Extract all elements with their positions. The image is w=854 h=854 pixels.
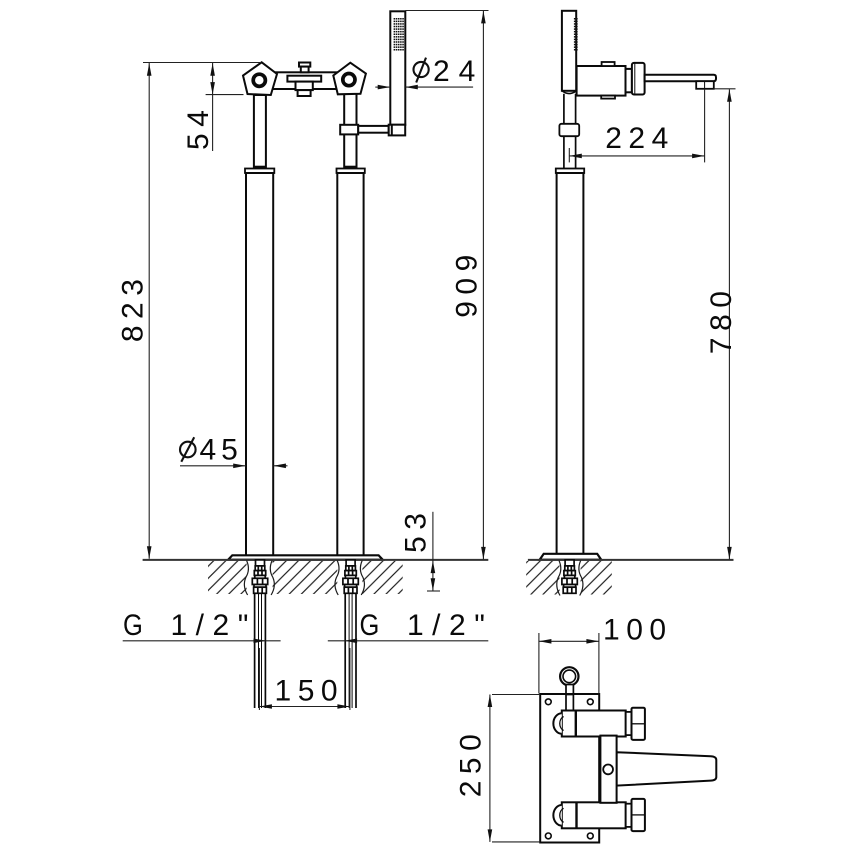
ext 250 bottom (492, 841, 540, 843)
svg-text:1/2": 1/2" (171, 609, 257, 642)
svg-text:250: 250 (455, 728, 488, 798)
screw hole tr (587, 699, 593, 705)
handle pentagon left (243, 62, 277, 95)
wavy break line left of side tail (557, 561, 561, 596)
floor line front (143, 559, 489, 561)
spout base circle (603, 765, 613, 775)
valve cap arc top (553, 713, 561, 734)
dim phi24 line left (375, 86, 390, 88)
dim 250 line (489, 695, 491, 842)
ext 100 right (598, 633, 600, 694)
hatch patch front 1 (208, 561, 247, 594)
arrow 54 bottom (210, 82, 215, 95)
pipe joint line right (344, 166, 356, 169)
svg-text:150: 150 (275, 675, 345, 708)
holder stem over plate (566, 695, 573, 711)
hose side left line (563, 94, 565, 169)
spout bar side (645, 75, 716, 81)
dim phi45 leader right (273, 465, 287, 467)
pipe joint line left (254, 166, 266, 169)
ext 780 top (714, 88, 736, 90)
holder stem (566, 685, 573, 712)
holder ring inner (563, 670, 576, 683)
arrow 150 right (337, 704, 350, 709)
svg-text:53: 53 (400, 507, 433, 553)
leader G12 left (123, 640, 281, 642)
valve cap inner arc top (560, 717, 564, 731)
dim 150 line (259, 706, 350, 708)
base plate side (540, 554, 602, 560)
riser pipe left (254, 95, 266, 169)
elbow horizontal pipe (358, 126, 389, 133)
arrow 909 top (481, 11, 486, 24)
column collar side (556, 169, 584, 174)
ext line 53 bottom (427, 590, 440, 592)
screw hole bl (545, 833, 551, 839)
dim 909 line (482, 11, 484, 560)
column right (337, 173, 363, 556)
dim 224 line (569, 155, 704, 157)
arrow 100 right (586, 639, 599, 644)
hatch patch side 2 (581, 561, 612, 595)
ext 224 right vertical (704, 89, 706, 163)
handle side (632, 63, 645, 95)
hand shower side body (562, 11, 576, 91)
dim 100 line (539, 640, 599, 642)
ext 100 left (538, 633, 540, 694)
elbow collar on right riser (340, 125, 358, 135)
threaded tail side (562, 560, 577, 593)
arrow 823 bottom (147, 546, 152, 559)
handle ring left (253, 74, 265, 86)
handle pentagon right (333, 63, 366, 95)
label phi45 symbol (180, 437, 196, 462)
spout outlet inner line (704, 81, 706, 89)
arrow 53 top (431, 561, 436, 574)
svg-text:24: 24 (433, 55, 484, 88)
svg-text:G: G (123, 608, 143, 641)
ext 150 left (258, 648, 260, 710)
valve collar top (626, 712, 632, 735)
arrow phi45 r (273, 464, 286, 469)
valve divider bottom (575, 802, 577, 828)
arrow G12 left (254, 639, 267, 644)
column side (557, 173, 584, 554)
arrow 100 left (539, 639, 552, 644)
hose fitting inner line (391, 125, 393, 136)
spout outlet side (696, 81, 714, 89)
valve handle mid line top (632, 723, 645, 725)
riser pipe right (344, 94, 356, 169)
ext line 54 bottom (206, 94, 244, 96)
hatch patch front 2 (273, 561, 338, 594)
holder ring outer (560, 667, 578, 685)
spray dots side shower (574, 18, 578, 51)
wavy break line left of right tail (335, 561, 339, 596)
dim 780 line (728, 89, 730, 559)
ext 150 right (349, 648, 351, 710)
valve handle top (632, 708, 645, 740)
handle collar side (626, 69, 632, 92)
valve collar bottom (626, 804, 632, 827)
svg-text:G: G (360, 608, 380, 641)
column left (246, 173, 273, 556)
svg-text:823: 823 (117, 273, 150, 343)
svg-text:224: 224 (605, 122, 675, 155)
base plate front (228, 555, 383, 559)
arrow phi24 right (405, 85, 418, 90)
arrow 823 top (147, 63, 152, 75)
arrow 150 left (259, 704, 272, 709)
mounting plate (540, 694, 599, 843)
hand shower front body (390, 11, 405, 125)
svg-text:780: 780 (705, 285, 738, 355)
dim phi24 line right (405, 86, 473, 88)
label phi24 symbol (414, 58, 429, 83)
dim phi45 leader left (180, 465, 246, 467)
arrow 780 top (727, 89, 732, 102)
dim 823 line (148, 63, 150, 559)
valve body bottom (562, 802, 626, 828)
shower taper curve (562, 91, 576, 94)
hose nut collar side (559, 124, 579, 136)
handle ring right (343, 74, 355, 86)
hatch patch side 1 (526, 561, 559, 595)
wavy break line left of left tail (244, 561, 248, 596)
supply pipe right below (345, 593, 356, 708)
spout block lower (298, 90, 311, 96)
diverter knob top lip (299, 63, 310, 67)
spray dots front shower (394, 18, 404, 51)
wavy break line right of right tail (360, 561, 364, 596)
svg-text:909: 909 (451, 248, 484, 318)
arrow 780 bottom (727, 547, 732, 560)
wavy break line right of left tail (270, 561, 274, 596)
valve body top (562, 711, 626, 737)
leader G12 right (328, 640, 489, 642)
handle inner line (634, 63, 636, 94)
ext line top 909 (405, 10, 488, 12)
screw hole tl (545, 699, 551, 705)
screw hole br (587, 833, 593, 839)
ext 224 left (568, 148, 570, 162)
valve divider top (575, 711, 577, 737)
svg-text:45: 45 (200, 434, 243, 467)
arrow 224 right (692, 154, 705, 159)
ext 250 top (492, 694, 540, 696)
arrow 250 top (488, 695, 493, 708)
arrow 909 bottom (481, 547, 486, 560)
spout block upper (296, 82, 313, 91)
column collar right (337, 169, 365, 174)
hatch patch front 3 (362, 561, 402, 594)
mixer body bar (262, 72, 346, 89)
valve handle mid line bottom (632, 814, 645, 816)
mixer body side (577, 66, 626, 96)
wavy break line right of side tail (579, 561, 583, 596)
svg-text:100: 100 (603, 614, 673, 647)
arrow 54 top (210, 63, 215, 75)
hose end fitting (389, 125, 406, 136)
svg-text:1/2": 1/2" (407, 609, 493, 642)
valve handle bottom (632, 799, 645, 831)
dim 53 line (432, 512, 434, 591)
spout base bar (600, 736, 616, 803)
hose side right line (575, 94, 577, 169)
dim 54 line (212, 63, 214, 151)
diverter knob stem (301, 67, 309, 73)
valve cap inner arc bottom (560, 808, 564, 822)
spout plan (617, 752, 717, 785)
ext line top front (143, 62, 261, 64)
arrow 53 bottom (431, 578, 436, 591)
svg-text:54: 54 (182, 104, 215, 150)
knob on body top (602, 62, 615, 66)
arrow 224 left (569, 154, 582, 159)
arrow G12 right (345, 639, 358, 644)
arrow 250 bottom (488, 829, 493, 842)
arrow phi45 (233, 464, 246, 469)
valve cap arc bottom (553, 805, 561, 826)
supply pipe left below (255, 593, 266, 708)
arrows (147, 11, 732, 842)
column collar left (245, 169, 274, 174)
arrow phi24 left (378, 85, 391, 90)
floor line side (528, 559, 734, 561)
spout plate front (287, 76, 321, 82)
knob on body bottom (601, 96, 615, 99)
